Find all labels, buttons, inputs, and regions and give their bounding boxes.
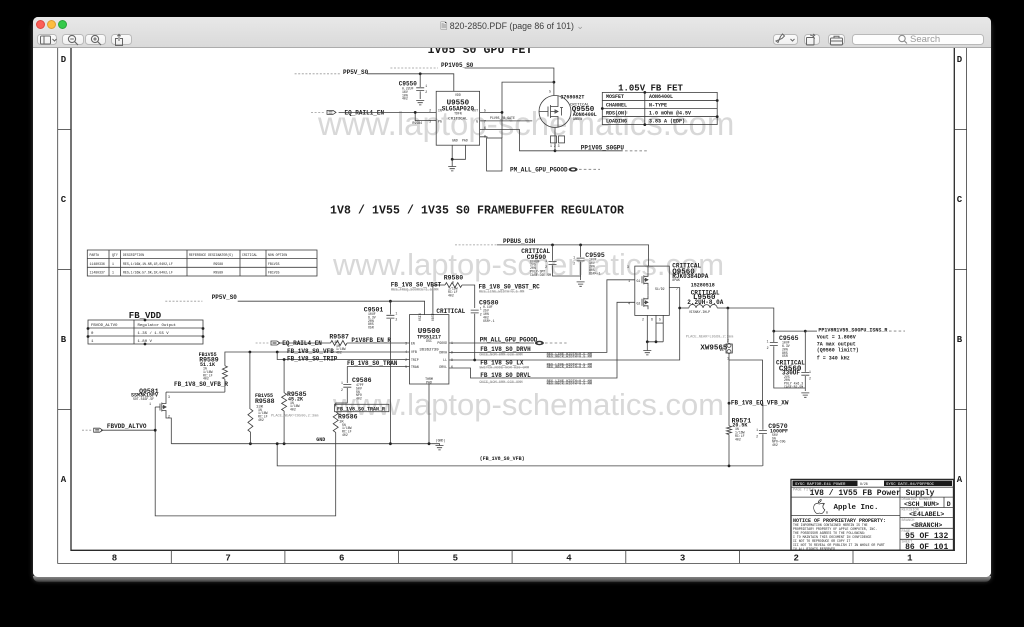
svg-text:8: 8 (112, 554, 117, 564)
svg-text:SYSC DATE-04/PDFPROC: SYSC DATE-04/PDFPROC (886, 482, 935, 487)
svg-text:1: 1 (907, 554, 913, 564)
svg-text:2: 2 (642, 318, 644, 322)
svg-text:6: 6 (339, 554, 344, 564)
svg-text:G: G (476, 120, 478, 124)
svg-text:R9588: R9588 (214, 262, 224, 266)
svg-text:XW9565: XW9565 (700, 344, 728, 352)
svg-text:1 2 3: 1 2 3 (550, 144, 560, 148)
svg-text:FB_1V8_EQ_VFB_XW: FB_1V8_EQ_VFB_XW (731, 400, 789, 407)
svg-text:f = 340 kHz: f = 340 kHz (817, 355, 850, 361)
svg-text:LL: LL (443, 358, 447, 362)
svg-text:X5R: X5R (782, 354, 788, 358)
svg-text:CRITICAL: CRITICAL (242, 253, 257, 257)
svg-text:<BRANCH>: <BRANCH> (911, 522, 942, 529)
svg-text:CRITICAL: CRITICAL (436, 308, 465, 315)
svg-text:GND: GND (316, 437, 325, 443)
svg-text:RES,1/16W,1%-NR,1R,0402,LF: RES,1/16W,1%-NR,1R,0402,LF (123, 262, 173, 266)
svg-text:2: 2 (405, 358, 407, 362)
svg-text:PP1V05_S0GPU: PP1V05_S0GPU (581, 144, 625, 151)
svg-text:1V8 / 1V55 FB Power Supply: 1V8 / 1V55 FB Power Supply (810, 489, 935, 498)
svg-text:1.0 mOhm @4.5V: 1.0 mOhm @4.5V (649, 110, 691, 116)
svg-text:FB_1V8_S0_TRAN: FB_1V8_S0_TRAN (347, 360, 398, 367)
svg-text:AON6400L: AON6400L (649, 94, 673, 100)
svg-text:4: 4 (628, 301, 630, 305)
svg-text:LOADING: LOADING (606, 118, 627, 124)
svg-text:1: 1 (628, 279, 630, 283)
svg-text:OUT: OUT (472, 108, 478, 112)
svg-text:TRIP: TRIP (411, 358, 419, 362)
svg-text:RES_NECK_WIDTH=0.5 MM: RES_NECK_WIDTH=0.5 MM (547, 383, 592, 387)
svg-text:A: A (61, 475, 67, 485)
svg-text:<SCH_NUM>: <SCH_NUM> (904, 501, 939, 508)
svg-text:CASE:B2-SM: CASE:B2-SM (784, 385, 803, 389)
svg-text:D: D (957, 55, 963, 65)
svg-text:1: 1 (91, 340, 94, 344)
svg-text:VFB: VFB (411, 350, 417, 354)
svg-text:www.laptop-schematics.com: www.laptop-schematics.com (332, 387, 724, 422)
svg-text:2: 2 (425, 90, 427, 94)
svg-text:S1/D2: S1/D2 (655, 287, 665, 291)
svg-text:DRVL: DRVL (439, 365, 447, 369)
svg-text:6: 6 (651, 318, 653, 322)
svg-text:402: 402 (356, 397, 362, 401)
svg-text:A: A (957, 475, 963, 485)
svg-text:1: 1 (149, 402, 151, 406)
svg-text:V5IN: V5IN (418, 313, 422, 321)
svg-text:FB_1V8_S0_TRAN_R: FB_1V8_S0_TRAN_R (337, 406, 385, 412)
svg-text:1V05 S0 GPU FET: 1V05 S0 GPU FET (427, 48, 532, 57)
svg-text:®: ® (826, 511, 828, 515)
svg-text:5: 5 (549, 90, 551, 94)
svg-text:VISHAY-IHLP: VISHAY-IHLP (689, 310, 710, 314)
svg-text:PGOOD: PGOOD (437, 341, 447, 345)
svg-text:1: 1 (112, 271, 114, 275)
svg-text:402: 402 (402, 97, 408, 101)
svg-text:3.83 A (EDP): 3.83 A (EDP) (649, 118, 685, 124)
svg-text:PG: PG (438, 120, 442, 124)
svg-text:402: 402 (735, 437, 741, 441)
svg-text:G2: G2 (637, 301, 641, 305)
svg-text:1V8 / 1V55 / 1V35 S0 FRAMEBUFF: 1V8 / 1V55 / 1V35 S0 FRAMEBUFFER REGULAT… (330, 205, 624, 218)
svg-text:2: 2 (429, 108, 431, 112)
svg-text:X5R+-1: X5R+-1 (483, 319, 495, 323)
svg-text:C: C (61, 195, 67, 205)
svg-text:5: 5 (453, 554, 458, 564)
svg-text:2: 2 (767, 346, 769, 350)
svg-text:FB_1V8_S0_DRVH: FB_1V8_S0_DRVH (480, 346, 531, 353)
svg-text:NON OPTION: NON OPTION (268, 253, 287, 257)
svg-text:CHANNEL: CHANNEL (606, 102, 627, 108)
svg-text:CRITICAL: CRITICAL (448, 117, 468, 121)
svg-text:R9586: R9586 (338, 413, 358, 420)
svg-text:1: 1 (756, 428, 758, 432)
svg-text:98: 98 (720, 348, 724, 352)
svg-text:FBVDD_ALTVO: FBVDD_ALTVO (107, 423, 147, 430)
svg-text:2: 2 (168, 415, 170, 419)
svg-text:ONCE_NOM-0MM 030-0MM: ONCE_NOM-0MM 030-0MM (479, 354, 522, 358)
svg-text:0: 0 (91, 332, 94, 336)
svg-text:P1V05_FB_GATE: P1V05_FB_GATE (490, 116, 515, 120)
svg-text:1: 1 (809, 370, 811, 374)
svg-text:D: D (61, 55, 67, 65)
svg-text:PAD: PAD (462, 139, 468, 143)
svg-text:1: 1 (425, 84, 427, 88)
svg-text:1.35 / 1.55 V: 1.35 / 1.55 V (138, 331, 170, 336)
svg-text:PP5V_S0: PP5V_S0 (343, 69, 369, 76)
svg-text:PP1V8R1V55_S0GPU_ISNS_R: PP1V8R1V55_S0GPU_ISNS_R (818, 328, 887, 334)
svg-text:2: 2 (480, 313, 482, 317)
svg-text:C: C (957, 195, 963, 205)
svg-text:11480336: 11480336 (90, 262, 105, 266)
svg-text:1: 1 (341, 381, 343, 385)
svg-text:11480337: 11480337 (90, 271, 105, 275)
svg-text:402: 402 (772, 443, 778, 447)
svg-text:1: 1 (395, 312, 397, 316)
svg-text:PPBUS_G3H: PPBUS_G3H (503, 238, 536, 245)
svg-text:TDFN: TDFN (454, 112, 462, 116)
svg-text:PM_ALL_GPU_PGOOD: PM_ALL_GPU_PGOOD (510, 166, 568, 173)
svg-text:PM_ALL_GPU_PGOOD: PM_ALL_GPU_PGOOD (480, 336, 538, 343)
svg-text:R9587: R9587 (329, 333, 349, 340)
svg-text:FB1V35: FB1V35 (268, 262, 280, 266)
svg-text:X5R+-1: X5R+-1 (589, 271, 601, 275)
svg-text:EQ_RAIL1_EN: EQ_RAIL1_EN (345, 109, 385, 116)
svg-text:(Q9560 limit?): (Q9560 limit?) (817, 347, 859, 353)
svg-text:DRVH: DRVH (439, 350, 447, 354)
svg-text:3: 3 (680, 554, 685, 564)
svg-text:GREEN: GREEN (573, 117, 583, 121)
svg-text:TRAN: TRAN (411, 365, 419, 369)
svg-text:B: B (61, 335, 67, 345)
svg-text:5: 5 (484, 108, 486, 112)
svg-text:1: 1 (767, 340, 769, 344)
svg-text:(FB_1V8_S0_VFB): (FB_1V8_S0_VFB) (480, 456, 525, 462)
svg-text:R9588: R9588 (255, 398, 275, 405)
svg-text:3: 3 (627, 265, 629, 269)
svg-text:2: 2 (341, 388, 343, 392)
svg-text:1: 1 (573, 256, 575, 260)
svg-text:IN: IN (438, 108, 442, 112)
svg-text:402: 402 (448, 293, 454, 297)
svg-text:1.05V FB FET: 1.05V FB FET (618, 83, 683, 93)
svg-text:2: 2 (573, 262, 575, 266)
svg-text:FB_1V8_S0_VBST: FB_1V8_S0_VBST (391, 281, 442, 288)
svg-text:CASE:D2E-SM: CASE:D2E-SM (530, 273, 551, 277)
svg-text:N-TYPE: N-TYPE (649, 102, 667, 108)
svg-text:3: 3 (168, 395, 170, 399)
svg-text:<E4LABEL>: <E4LABEL> (909, 511, 944, 518)
svg-text:5: 5 (405, 365, 407, 369)
svg-text:36362739: 36362739 (419, 348, 439, 352)
svg-text:FB_1V8_S0_VBST_RC: FB_1V8_S0_VBST_RC (479, 284, 541, 291)
svg-text:1: 1 (480, 307, 482, 311)
svg-text:ONCE_NOM-0MM 030-0MM: ONCE_NOM-0MM 030-0MM (479, 381, 522, 385)
svg-text:95 OF 132: 95 OF 132 (905, 532, 948, 541)
svg-text:D: D (947, 501, 951, 508)
svg-text:FB_1V8_S0_VFB: FB_1V8_S0_VFB (287, 348, 334, 355)
svg-text:QTY: QTY (112, 253, 118, 257)
svg-text:1: 1 (112, 262, 114, 266)
svg-text:P1V8FB_EN_R: P1V8FB_EN_R (351, 337, 391, 344)
svg-text:2: 2 (545, 265, 547, 269)
svg-text:PAD: PAD (426, 380, 432, 384)
svg-text:FB_1V8_S0_DRVL: FB_1V8_S0_DRVL (480, 372, 531, 379)
svg-text:402: 402 (290, 408, 296, 412)
svg-text:86 OF 101: 86 OF 101 (905, 543, 948, 552)
svg-text:IV ALL RIGHTS RESERVED: IV ALL RIGHTS RESERVED (793, 547, 835, 551)
svg-text:2: 2 (809, 377, 811, 381)
svg-text:4: 4 (566, 554, 572, 564)
svg-text:DSC: DSC (426, 339, 432, 343)
svg-text:SWITCH_NODE-NOM 030-0MM: SWITCH_NODE-NOM 030-0MM (479, 366, 529, 370)
svg-text:Apple Inc.: Apple Inc. (833, 504, 878, 512)
svg-text:8: 8 (484, 134, 486, 138)
svg-text:FB1V35: FB1V35 (268, 271, 280, 275)
svg-text:GND: GND (452, 139, 458, 143)
svg-text:402: 402 (258, 418, 264, 422)
svg-text:RES,1/16W,57.6K,1R,0402,LF: RES,1/16W,57.6K,1R,0402,LF (123, 271, 173, 275)
svg-text:402: 402 (342, 433, 348, 437)
svg-text:RES_NECK_WIDTH=0.5 MM: RES_NECK_WIDTH=0.5 MM (547, 356, 592, 360)
svg-text:VDD: VDD (455, 93, 461, 97)
svg-text:3768082T: 3768082T (560, 94, 584, 100)
svg-text:SOT-563F-SF: SOT-563F-SF (133, 397, 154, 401)
svg-text:2: 2 (793, 554, 798, 564)
svg-text:Vout = 1.806V: Vout = 1.806V (817, 334, 856, 340)
svg-text:PLACE_NEAR=C9500,2:3mm: PLACE_NEAR=C9500,2:3mm (271, 414, 318, 418)
svg-text:2: 2 (756, 435, 758, 439)
svg-text:PART#: PART# (90, 253, 100, 257)
svg-text:Regulator Output: Regulator Output (138, 323, 176, 328)
svg-text:REFERENCE DESIGNATOR(S): REFERENCE DESIGNATOR(S) (189, 253, 233, 257)
svg-text:RES_LINE_WIDTH=0.5 MM: RES_LINE_WIDTH=0.5 MM (479, 291, 524, 295)
svg-text:RES_NECK_WIDTH=0.5 MM: RES_NECK_WIDTH=0.5 MM (547, 366, 592, 370)
svg-text:FBVDD_ALTVO: FBVDD_ALTVO (91, 324, 118, 328)
svg-text:2: 2 (395, 318, 397, 322)
svg-text:SYSC RAPTOR-E41 POWER: SYSC RAPTOR-E41 POWER (795, 483, 846, 487)
svg-text:VBST: VBST (431, 313, 435, 321)
svg-text:R9589: R9589 (214, 271, 224, 275)
svg-text:402: 402 (336, 351, 342, 355)
svg-text:15280518: 15280518 (691, 282, 715, 288)
svg-text:X5R: X5R (368, 326, 374, 330)
svg-text:1: 1 (545, 259, 547, 263)
svg-text:PP5V_S0: PP5V_S0 (212, 294, 238, 301)
svg-text:8/28: 8/28 (860, 482, 868, 486)
svg-text:3: 3 (405, 342, 407, 346)
svg-text:FB_1V8_S0_TRIP: FB_1V8_S0_TRIP (287, 356, 338, 363)
svg-text:EQ_RAIL4_EN: EQ_RAIL4_EN (282, 340, 322, 347)
svg-text:FB_1V8_S0_VFB_R: FB_1V8_S0_VFB_R (174, 381, 228, 388)
svg-text:MOSFET: MOSFET (606, 94, 624, 100)
svg-text:RES_FREQ_SOURCE=1.5 MM: RES_FREQ_SOURCE=1.5 MM (391, 289, 438, 293)
svg-text:G1: G1 (637, 279, 641, 283)
svg-text:(GND): (GND) (436, 439, 446, 443)
svg-text:DESCRIPTION: DESCRIPTION (123, 253, 144, 257)
svg-text:7: 7 (484, 120, 486, 124)
svg-text:R9584: R9584 (412, 121, 422, 125)
svg-text:RDS(ON): RDS(ON) (606, 110, 627, 116)
svg-text:5: 5 (659, 318, 661, 322)
svg-text:7: 7 (225, 554, 230, 564)
svg-text:2: 2 (727, 339, 729, 343)
svg-text:8PAK: 8PAK (672, 278, 680, 282)
svg-text:EN: EN (411, 342, 415, 346)
svg-text:B: B (957, 335, 963, 345)
